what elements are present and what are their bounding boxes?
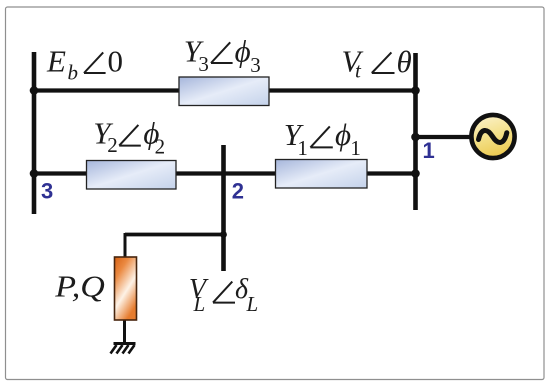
svg-text:2: 2 bbox=[232, 178, 244, 203]
svg-text:1: 1 bbox=[297, 136, 308, 160]
svg-text:0: 0 bbox=[108, 44, 124, 79]
svg-text:L: L bbox=[246, 292, 259, 316]
svg-text:ϕ: ϕ bbox=[335, 117, 351, 152]
svg-text:ϕ: ϕ bbox=[235, 34, 251, 69]
svg-text:L: L bbox=[193, 292, 206, 316]
svg-text:θ: θ bbox=[397, 44, 412, 79]
svg-text:3: 3 bbox=[250, 53, 261, 77]
svg-text:1: 1 bbox=[423, 138, 435, 163]
svg-text:P,Q: P,Q bbox=[54, 269, 105, 304]
svg-text:1: 1 bbox=[350, 136, 361, 160]
svg-text:E: E bbox=[46, 44, 66, 79]
svg-text:2: 2 bbox=[155, 134, 166, 158]
svg-text:3: 3 bbox=[198, 52, 209, 76]
svg-text:b: b bbox=[68, 61, 79, 85]
svg-text:2: 2 bbox=[107, 133, 118, 157]
svg-text:t: t bbox=[355, 59, 362, 83]
svg-text:3: 3 bbox=[41, 178, 53, 203]
